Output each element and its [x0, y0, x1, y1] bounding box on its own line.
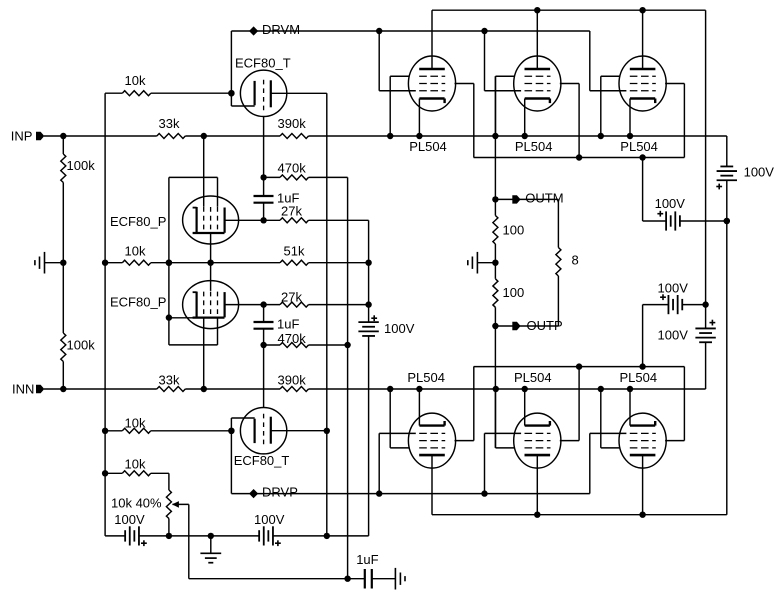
wire 470k column: [344, 177, 350, 578]
wire cathode bus mid: [105, 260, 372, 266]
wire DRVM bus: [228, 28, 590, 106]
resistor 470k (upper): [278, 160, 309, 180]
svg-text:ECF80_T: ECF80_T: [234, 453, 290, 468]
svg-text:33k: 33k: [159, 116, 180, 131]
svg-text:DRVM: DRVM: [262, 22, 300, 37]
label ECF80_P upper: [110, 214, 166, 229]
svg-text:27k: 27k: [281, 204, 302, 219]
ground (bottom right): [395, 568, 405, 590]
wire screen bus bottom: [474, 363, 685, 369]
wire T2 plate: [271, 430, 327, 432]
svg-text:100: 100: [503, 285, 525, 300]
ground (bottom): [200, 536, 221, 563]
wire 27k row 1: [225, 217, 369, 223]
svg-text:100k: 100k: [67, 158, 96, 173]
resistor 10k (row3): [122, 416, 151, 434]
svg-text:INP: INP: [11, 128, 33, 143]
resistor 100 (upper): [493, 216, 524, 245]
wire P1 g2: [169, 177, 218, 206]
port OUTM: [512, 190, 563, 205]
pentode ECF80_P (upper): [183, 196, 239, 244]
wire P2 g2: [169, 318, 218, 345]
pentode PL504 (top right): [590, 10, 685, 157]
svg-text:PL504: PL504: [409, 139, 447, 154]
svg-text:ECF80_P: ECF80_P: [110, 295, 166, 310]
svg-text:390k: 390k: [278, 373, 307, 388]
label PL504 top-left: [409, 139, 447, 154]
potentiometer 10k 40%: [111, 490, 189, 536]
pentode ECF80_P (lower): [169, 281, 239, 329]
pentode PL504 (top left): [379, 10, 474, 157]
svg-text:PL504: PL504: [515, 139, 553, 154]
wire screen battery top: [643, 218, 730, 224]
label ECF80_T bottom: [234, 453, 290, 468]
battery 100V (HT): [658, 320, 716, 343]
label PL504 bottom-left: [407, 370, 445, 385]
battery 100V (screen bottom): [658, 280, 689, 314]
wire 8ohm column: [557, 199, 559, 326]
resistor 10k (row4): [122, 457, 151, 476]
wire 10k row 3: [105, 428, 235, 434]
wire battery row: [105, 533, 369, 539]
junctions INP bus at tubes: [387, 133, 633, 139]
svg-text:PL504: PL504: [407, 370, 445, 385]
svg-text:DRVP: DRVP: [262, 485, 298, 500]
battery 100V (column): [358, 315, 414, 336]
svg-text:100: 100: [503, 223, 525, 238]
resistor 33k (INN): [157, 373, 186, 392]
resistor 27k (upper): [280, 204, 309, 223]
svg-text:ECF80_P: ECF80_P: [110, 214, 166, 229]
wire OUTM: [492, 196, 558, 202]
pentode PL504 (bottom mid): [485, 367, 580, 515]
battery 100V (left): [114, 512, 147, 546]
battery 100V (mid): [254, 512, 285, 546]
svg-text:390k: 390k: [278, 116, 307, 131]
wire 27k to battery: [368, 220, 370, 322]
wire feedback column: [102, 93, 108, 536]
svg-text:PL504: PL504: [620, 139, 658, 154]
wire P1 g1: [203, 136, 205, 207]
capacitor 1uF (bottom): [356, 552, 378, 588]
svg-text:100V: 100V: [658, 327, 689, 342]
wire triode plate column: [324, 93, 330, 536]
wire pot wiper: [188, 504, 190, 578]
wire OUTP: [492, 323, 558, 329]
svg-text:1uF: 1uF: [356, 552, 378, 567]
pentode PL504 (top mid): [485, 10, 580, 157]
wire right top battery: [724, 136, 730, 515]
wire 27k row 2: [225, 301, 372, 307]
resistor 27k (lower): [280, 289, 309, 307]
svg-text:470k: 470k: [278, 331, 307, 346]
svg-text:10k 40%: 10k 40%: [111, 495, 162, 510]
pentode PL504 (bottom left): [379, 367, 474, 515]
svg-text:INN: INN: [12, 382, 34, 397]
resistor 10k (row2): [122, 244, 151, 266]
port DRVP: [249, 485, 298, 500]
resistor 100k (lower): [61, 333, 95, 362]
ground (input): [35, 252, 63, 274]
wire plate bus bottom: [432, 512, 727, 518]
ground (divider): [468, 252, 496, 274]
svg-text:ECF80_T: ECF80_T: [235, 55, 291, 70]
resistor 470k (lower): [278, 331, 309, 348]
junctions INN bus at tubes: [387, 386, 633, 392]
capacitor 1uF (lower): [254, 305, 300, 332]
port INP: [11, 128, 45, 143]
svg-text:470k: 470k: [278, 160, 307, 175]
capacitor 1uF (upper): [254, 190, 300, 220]
wire screen column: [166, 177, 172, 345]
wire HT column: [705, 10, 707, 389]
wire 470k row 1: [264, 176, 348, 178]
wire 470k row 2: [264, 344, 348, 346]
resistor 8: [556, 248, 579, 277]
svg-text:10k: 10k: [125, 244, 146, 259]
wire INN bus: [44, 386, 706, 392]
resistor 390k (bottom): [278, 373, 309, 392]
wire T1 plate: [271, 92, 327, 94]
svg-text:100V: 100V: [658, 280, 689, 295]
pentode PL504 (bottom right): [590, 367, 685, 515]
resistor 390k (top): [278, 116, 309, 139]
battery 100V (screen top): [655, 196, 686, 230]
wire bottom feedback: [189, 576, 396, 582]
svg-text:100k: 100k: [67, 337, 96, 352]
svg-text:27k: 27k: [281, 289, 302, 304]
svg-text:100V: 100V: [254, 512, 285, 527]
svg-text:8: 8: [572, 253, 579, 268]
wire T1 grid: [260, 117, 266, 196]
triode ECF80_T (top): [231, 70, 286, 116]
label ECF80_T top: [235, 55, 291, 70]
svg-text:10k: 10k: [125, 416, 146, 431]
wire DRVP bus: [228, 418, 590, 497]
wire INP bus: [44, 133, 727, 139]
wire HT top bus: [432, 7, 706, 13]
label PL504 bottom-mid: [514, 370, 552, 385]
resistor 51k: [280, 244, 309, 266]
resistor 100k (upper): [61, 154, 95, 183]
wire screen battery column: [642, 158, 644, 367]
wire 100k column: [60, 136, 66, 389]
svg-text:10k: 10k: [125, 457, 146, 472]
wire pot top: [168, 473, 170, 490]
resistor 100 (lower): [493, 279, 524, 308]
resistor 33k (INP): [157, 116, 186, 139]
wire T2 grid: [260, 329, 266, 408]
port DRVM: [249, 22, 300, 37]
port INN: [12, 382, 44, 397]
label PL504 top-right: [620, 139, 658, 154]
svg-text:33k: 33k: [159, 373, 180, 388]
svg-text:100V: 100V: [384, 321, 415, 336]
wire screen bus top: [474, 154, 685, 160]
wire screen battery bottom: [643, 301, 709, 307]
wire P2 g1: [203, 318, 205, 389]
port OUTP: [512, 318, 562, 333]
svg-text:10k: 10k: [125, 73, 146, 88]
triode ECF80_T (bottom): [231, 408, 286, 454]
wire battery to bottom: [368, 336, 370, 536]
wire output column: [492, 76, 498, 448]
svg-text:100V: 100V: [744, 164, 775, 179]
label ECF80_P lower: [110, 295, 166, 310]
label PL504 bottom-right: [620, 370, 658, 385]
resistor 10k (row1): [122, 73, 151, 96]
battery 100V (right top): [716, 164, 774, 189]
svg-text:100V: 100V: [114, 512, 145, 527]
label PL504 top-mid: [515, 139, 553, 154]
svg-text:1uF: 1uF: [277, 317, 299, 332]
svg-text:100V: 100V: [655, 196, 686, 211]
svg-text:PL504: PL504: [514, 370, 552, 385]
wire P2 g3: [210, 263, 212, 291]
svg-text:OUTP: OUTP: [527, 318, 563, 333]
svg-text:51k: 51k: [284, 244, 305, 259]
svg-text:PL504: PL504: [620, 370, 658, 385]
wire P1 g3/cathode: [210, 234, 212, 263]
wire 10k row 4: [105, 472, 169, 474]
wire 10k row 1: [105, 90, 235, 96]
